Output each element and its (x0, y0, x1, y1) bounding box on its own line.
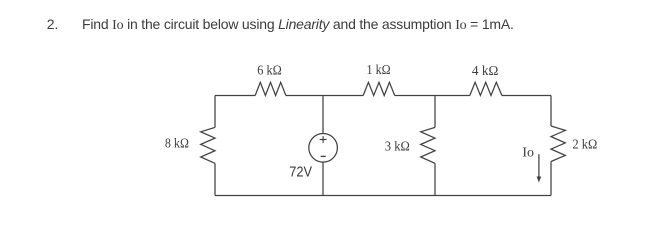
wire top-left segment (215, 95, 255, 97)
wire left upper (214, 96, 216, 128)
label 1 kΩ (367, 62, 391, 77)
label 6 kΩ (257, 62, 282, 77)
wire source branch upper (322, 96, 324, 134)
svg-text:4 kΩ: 4 kΩ (472, 63, 498, 78)
svg-text:2 kΩ: 2 kΩ (572, 137, 597, 152)
wire middle branch lower (434, 163, 436, 195)
svg-text:8 kΩ: 8 kΩ (165, 136, 189, 151)
wire left lower (214, 163, 216, 195)
label 3 kΩ (385, 138, 410, 153)
label Io (522, 144, 534, 159)
label 4 kΩ (472, 63, 498, 78)
resistor 3k (421, 127, 435, 163)
wire right lower (550, 162, 552, 196)
svg-text:6 kΩ: 6 kΩ (257, 62, 282, 77)
svg-text:1 kΩ: 1 kΩ (367, 62, 391, 77)
problem statement text (0, 0, 660, 40)
resistor 6k (255, 82, 286, 95)
label 2 kΩ (572, 137, 597, 152)
label 8 kΩ (165, 136, 189, 151)
wire bottom (215, 195, 551, 197)
wire middle branch upper (434, 96, 436, 128)
label 72V (289, 164, 312, 180)
wire top middle-right segment (395, 95, 470, 97)
svg-text:3 kΩ: 3 kΩ (385, 138, 410, 153)
resistor 8k (201, 127, 215, 163)
current arrow Io (537, 154, 542, 182)
wire source branch lower (322, 162, 324, 195)
voltage source 72V (309, 134, 338, 163)
resistor 4k (470, 82, 502, 95)
wire right upper (550, 96, 552, 127)
svg-text:Io: Io (522, 144, 534, 159)
wire top-right segment (502, 95, 551, 97)
resistor 1k (363, 82, 395, 95)
svg-text:72V: 72V (289, 164, 312, 180)
resistor 2k (551, 126, 565, 162)
wire top middle-left segment (286, 95, 363, 97)
